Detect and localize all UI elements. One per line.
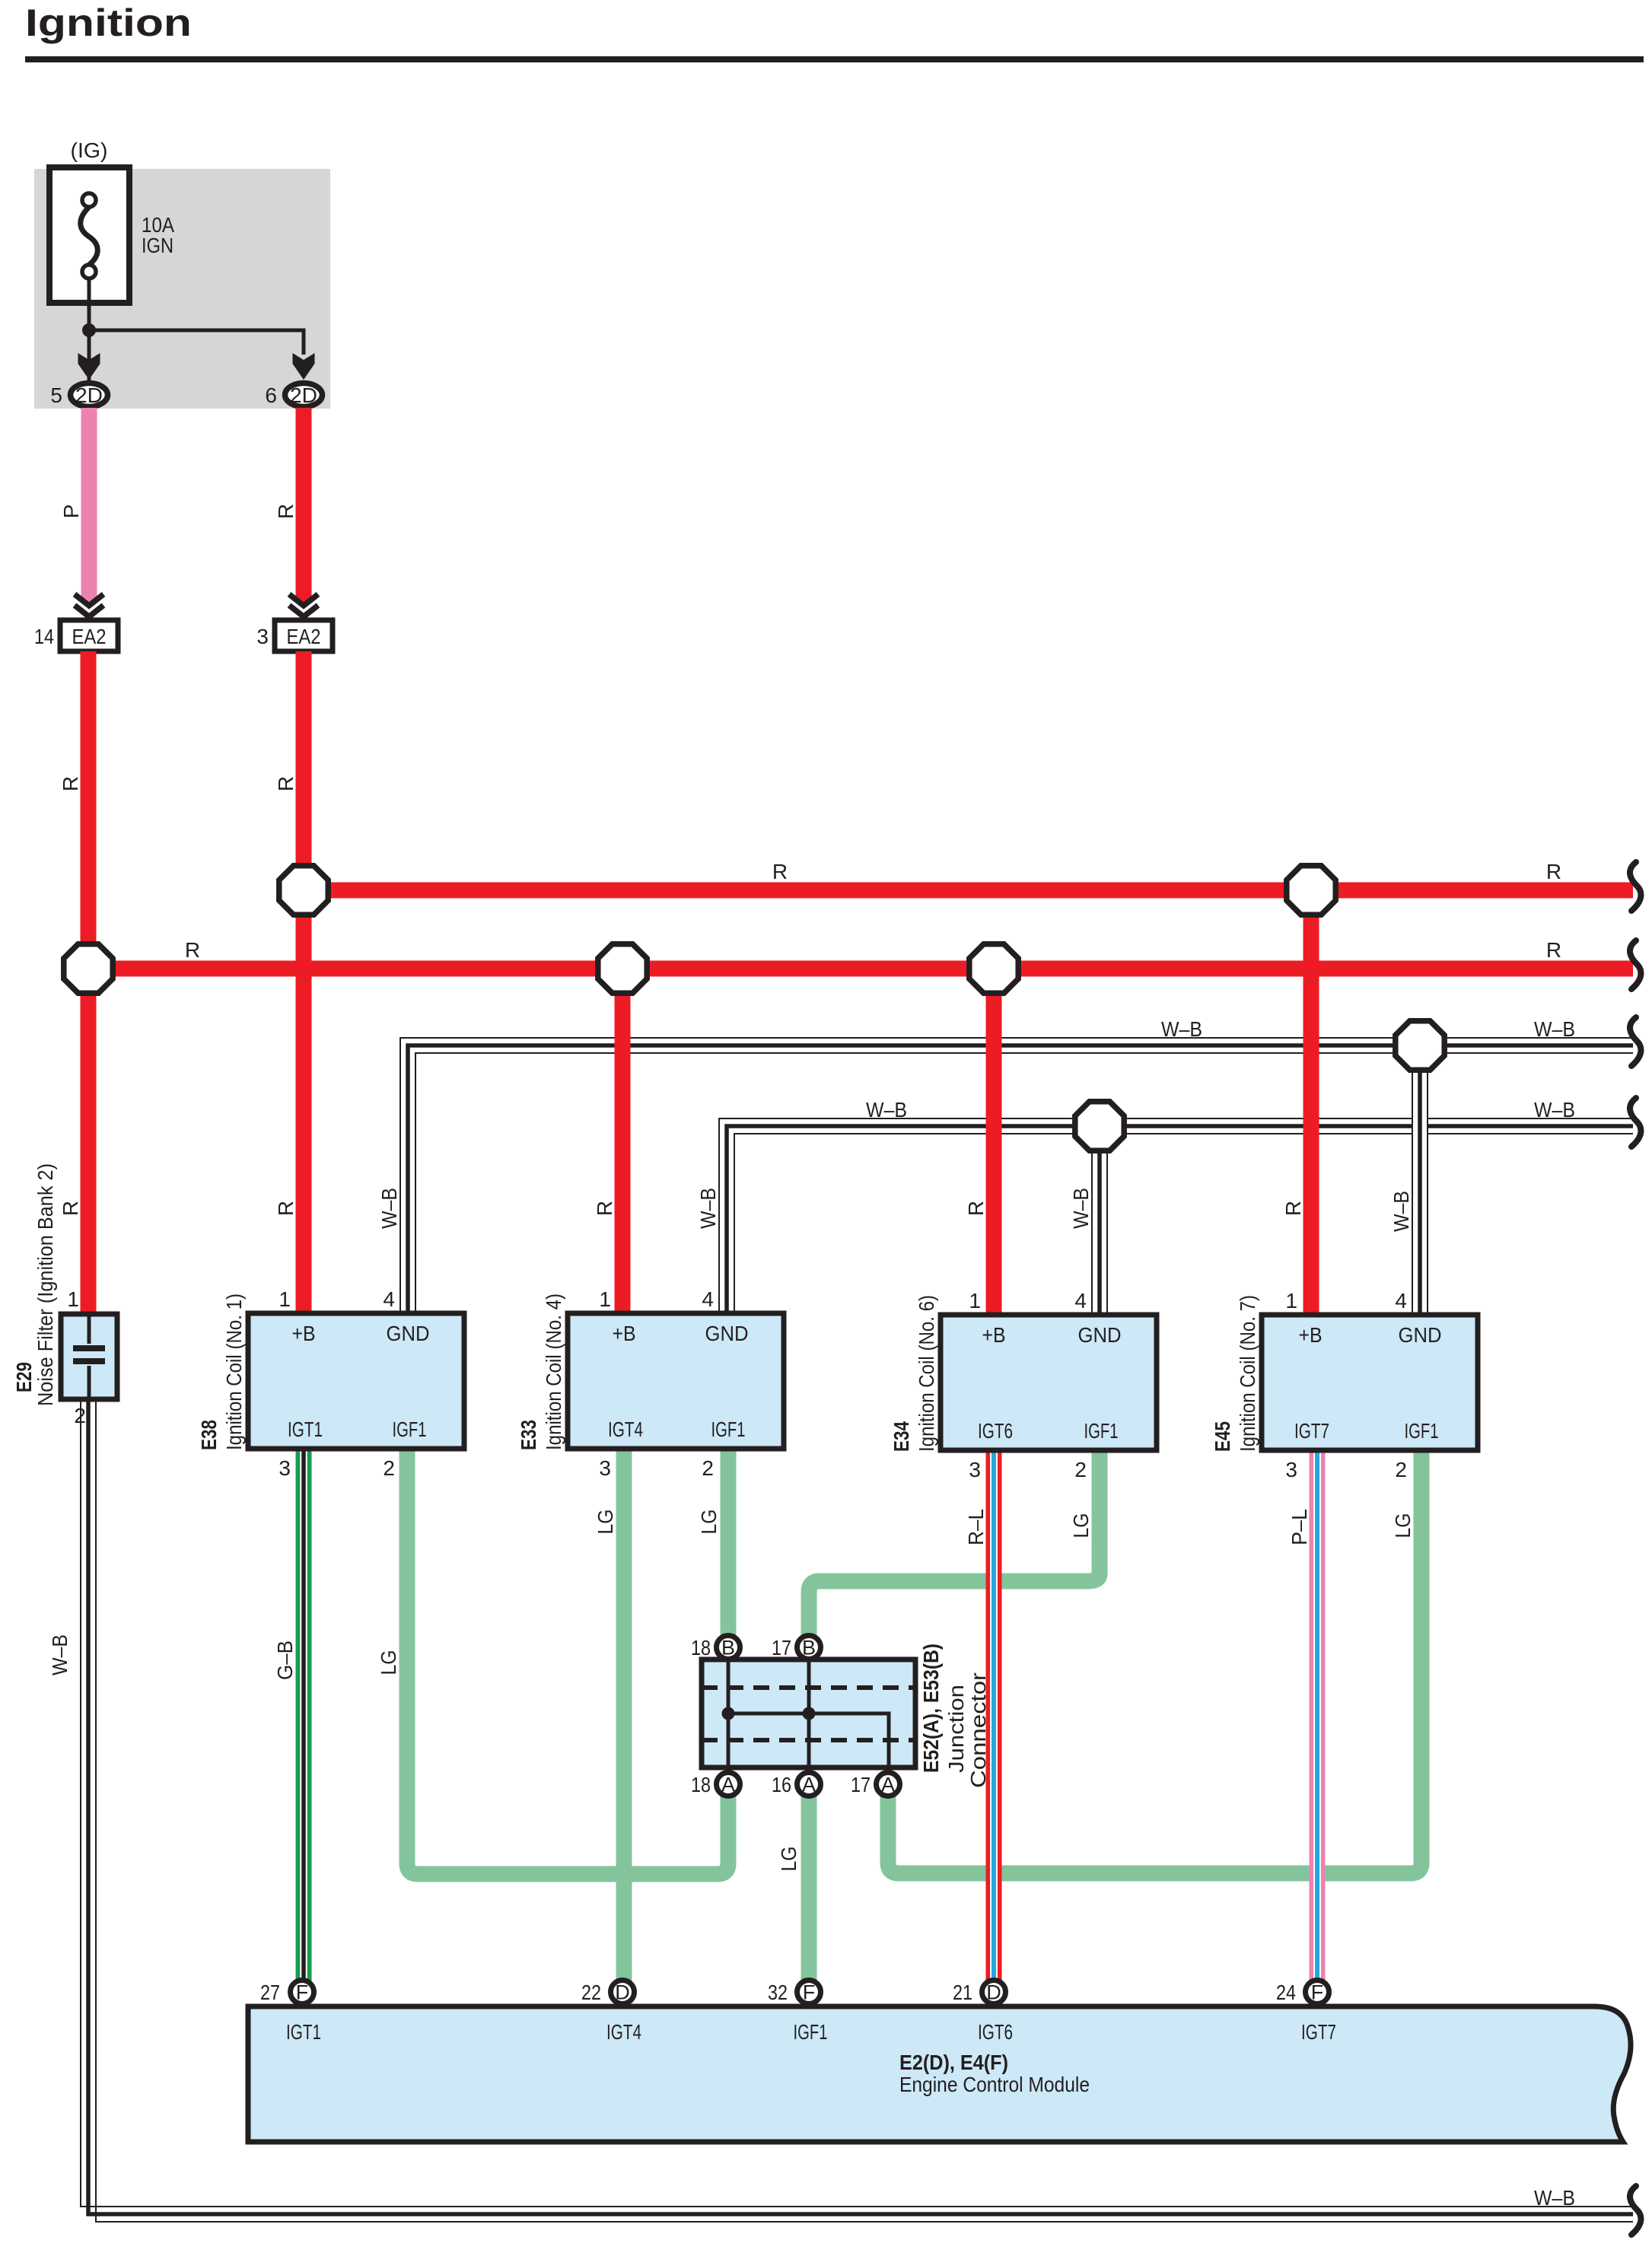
svg-text:W–B: W–B [696,1188,720,1229]
svg-text:21: 21 [953,1981,972,2004]
ECM pin 32 F IGF1 [768,1981,828,2044]
svg-text:3: 3 [279,1456,291,1480]
wire LG from E33 IGT4 to ECM 22D [594,1449,624,1983]
wire LG from E33 IGF1 to junction B18 [697,1449,728,1636]
svg-text:LG: LG [777,1847,801,1872]
arrow into connector 6 2D [293,353,315,380]
wire R to E45 +B [1281,890,1311,1315]
svg-text:W–B: W–B [1534,1098,1575,1122]
wire LG from junction A16 to ECM 32F [777,1796,809,1983]
continuation bracket W-B ground bus bottom [1630,2186,1641,2235]
svg-text:LG: LG [594,1510,617,1535]
svg-text:LG: LG [697,1510,721,1535]
svg-text:IGF1: IGF1 [1084,1419,1119,1443]
svg-text:R: R [59,776,82,791]
svg-text:E34: E34 [890,1421,913,1452]
junction pin 17 A [851,1773,900,1797]
junction pin 18 B [691,1636,740,1660]
ignition coil E45 (No. 7) [1211,1289,1478,1481]
svg-text:GND: GND [387,1322,430,1345]
svg-text:E52(A), E53(B): E52(A), E53(B) [919,1643,943,1773]
svg-text:EA2: EA2 [72,625,107,648]
svg-text:3: 3 [599,1456,611,1480]
ECM pin 27 F IGT1 [260,1981,321,2044]
svg-text:W–B: W–B [377,1188,401,1229]
wire P-L from E45 IGT7 to ECM 24F [1288,1448,1317,1983]
continuation bracket W-B bus A [1630,1017,1641,1066]
node J2 (octagon junction) [279,866,328,915]
svg-text:IGF1: IGF1 [1405,1419,1439,1443]
fuse 10A IGN [49,138,174,303]
svg-text:R–L: R–L [964,1509,988,1545]
svg-text:Junction: Junction [944,1685,968,1773]
wire LG from E34 IGF1 to junction B17 [809,1448,1100,1636]
svg-text:24: 24 [1276,1981,1296,2004]
svg-text:R: R [772,860,788,883]
svg-text:1: 1 [279,1287,291,1311]
ECM pin 24 F IGT7 [1276,1981,1336,2044]
svg-text:Ignition Coil (No. 7): Ignition Coil (No. 7) [1236,1295,1259,1452]
svg-text:G–B: G–B [273,1640,297,1680]
svg-text:(IG): (IG) [71,138,108,162]
svg-text:3: 3 [969,1458,981,1481]
svg-text:R: R [1281,1201,1305,1216]
svg-text:W–B: W–B [1069,1188,1093,1229]
svg-text:+B: +B [292,1322,316,1345]
svg-text:2: 2 [1395,1458,1407,1481]
wire W-B ground bus A (E38 GND) [377,1017,1633,1313]
svg-text:E38: E38 [197,1420,221,1450]
connector 14 EA2 [34,620,118,651]
svg-text:4: 4 [1395,1289,1407,1313]
svg-text:IGF1: IGF1 [711,1418,746,1441]
connector 3 EA2 [256,620,333,651]
svg-text:F: F [803,1981,816,2004]
wire R horizontal bus 1 [304,860,1633,890]
arrow into connector 5 2D [78,353,100,380]
svg-text:W–B: W–B [1389,1191,1413,1232]
junction connector E52(A), E53(B) [702,1643,990,1788]
wire LG from E38 IGF1 to junction A18 [377,1449,728,1874]
svg-text:17: 17 [851,1773,871,1796]
svg-text:P: P [59,504,83,519]
node J1 (octagon junction) [64,944,113,993]
svg-text:Engine Control Module: Engine Control Module [899,2073,1090,2096]
svg-text:GND: GND [1078,1323,1122,1347]
svg-text:P–L: P–L [1288,1509,1311,1545]
svg-text:4: 4 [383,1287,395,1311]
svg-text:A: A [721,1774,735,1796]
continuation bracket bus 1 [1630,862,1641,911]
wire R from 6 2D [274,408,304,603]
svg-text:27: 27 [260,1981,280,2004]
wire R to E33 +B [593,969,622,1313]
connector 5 2D [50,383,107,408]
svg-text:IGF1: IGF1 [393,1418,427,1441]
node J5 (octagon junction) [1287,866,1335,915]
svg-text:Noise Filter (Ignition Bank 2): Noise Filter (Ignition Bank 2) [33,1163,57,1406]
svg-text:F: F [1311,1981,1324,2004]
wire G-B from E38 IGT1 to ECM 27F [273,1449,304,1983]
inline connector chevrons into 3 EA2 [289,594,318,617]
inline connector chevrons into 14 EA2 [75,594,103,617]
junction pin 18 A [691,1773,740,1797]
svg-text:2: 2 [1074,1458,1087,1481]
svg-text:IGT4: IGT4 [608,1418,643,1441]
svg-text:W–B: W–B [1534,1017,1575,1041]
svg-text:IGF1: IGF1 [794,2020,828,2044]
svg-text:IGT1: IGT1 [286,2020,321,2044]
node J3 (octagon junction) [598,944,647,993]
svg-text:2: 2 [383,1456,395,1480]
wire R to E34 +B [964,969,994,1315]
svg-text:+B: +B [613,1322,636,1345]
svg-text:2D: 2D [290,383,317,407]
ECM pin 21 D IGT6 [953,1981,1013,2044]
svg-text:Ignition Coil (No. 1): Ignition Coil (No. 1) [222,1293,246,1450]
svg-text:1: 1 [1285,1289,1297,1313]
svg-text:GND: GND [1399,1323,1442,1347]
svg-text:IGT1: IGT1 [288,1418,323,1441]
power source block (grey) [34,169,330,409]
svg-text:R: R [59,1201,82,1216]
node J6 (octagon junction) [1075,1102,1124,1150]
ignition coil E33 (No. 4) [517,1287,784,1480]
svg-text:Ignition: Ignition [25,2,192,44]
svg-text:4: 4 [1074,1289,1087,1313]
svg-text:2: 2 [74,1404,86,1427]
svg-text:IGT6: IGT6 [978,1419,1013,1443]
wire W-B ground bus B (E33 GND) [696,1098,1633,1313]
svg-text:E2(D), E4(F): E2(D), E4(F) [899,2051,1008,2074]
svg-text:IGT7: IGT7 [1301,2020,1336,2044]
svg-text:22: 22 [581,1981,601,2004]
svg-text:17: 17 [772,1636,791,1659]
svg-text:1: 1 [67,1287,79,1311]
svg-text:A: A [802,1774,816,1796]
svg-text:IGN: IGN [142,234,173,257]
svg-text:4: 4 [702,1287,714,1311]
wire W-B E34 GND drop [1069,1126,1107,1315]
svg-text:W–B: W–B [866,1098,907,1122]
svg-text:3: 3 [256,625,269,648]
svg-text:R: R [185,938,200,962]
continuation bracket W-B bus B [1630,1098,1641,1147]
ignition coil E38 (No. 1) [197,1287,464,1480]
svg-text:W–B: W–B [1534,2186,1575,2210]
svg-text:W–B: W–B [1161,1017,1202,1041]
engine control module E2(D), E4(F) [248,2006,1631,2142]
wire P (pink) from 5 2D [59,408,89,603]
svg-text:W–B: W–B [48,1634,72,1675]
svg-text:2D: 2D [75,383,103,407]
svg-text:EA2: EA2 [287,625,321,648]
svg-text:IGT7: IGT7 [1294,1419,1329,1443]
svg-text:Ignition Coil (No. 4): Ignition Coil (No. 4) [542,1293,565,1450]
svg-text:R: R [964,1201,988,1216]
wire R-L from E34 IGT6 to ECM 21D [964,1448,994,1983]
noise filter E29 [12,1163,117,1427]
svg-text:2: 2 [702,1456,714,1480]
wire R horizontal bus 2 [88,938,1633,969]
svg-text:14: 14 [34,625,54,648]
svg-text:LG: LG [377,1650,400,1675]
continuation bracket bus 2 [1630,940,1641,989]
connector 6 2D [265,383,322,408]
svg-text:LG: LG [1391,1513,1415,1538]
svg-text:6: 6 [265,383,277,407]
title: Ignition [25,2,1644,62]
node J4 (octagon junction) [969,944,1018,993]
svg-text:R: R [274,504,298,519]
wire LG from junction A17 to E45 IGF1 [888,1448,1421,1873]
junction pin 16 A [772,1773,821,1797]
svg-text:A: A [881,1774,895,1796]
svg-text:IGT6: IGT6 [978,2020,1013,2044]
svg-text:18: 18 [691,1636,711,1659]
wire W-B from E29 pin 2 to ground bus [48,1399,1633,2222]
svg-text:R: R [1546,938,1561,962]
svg-text:R: R [274,776,298,791]
wire R from 3 EA2 to E38 +B [274,651,304,1313]
svg-text:3: 3 [1285,1458,1297,1481]
junction pin 17 B [772,1636,821,1660]
svg-text:E29: E29 [12,1362,36,1392]
svg-text:E45: E45 [1211,1421,1234,1452]
svg-text:+B: +B [982,1323,1006,1347]
svg-text:Connector: Connector [966,1672,990,1788]
svg-text:R: R [274,1201,298,1216]
ignition coil E34 (No. 6) [890,1289,1157,1481]
svg-text:R: R [1546,860,1561,883]
svg-text:1: 1 [599,1287,611,1311]
svg-text:Ignition Coil (No. 6): Ignition Coil (No. 6) [915,1295,938,1452]
svg-text:32: 32 [768,1981,788,2004]
svg-text:R: R [593,1201,616,1216]
svg-text:IGT4: IGT4 [606,2020,641,2044]
svg-text:1: 1 [969,1289,981,1313]
svg-text:F: F [296,1981,309,2004]
svg-text:16: 16 [772,1773,791,1796]
svg-text:D: D [615,1981,630,2004]
svg-text:GND: GND [705,1322,749,1345]
svg-text:D: D [986,1981,1001,2004]
ECM pin 22 D IGT4 [581,1981,641,2044]
svg-text:+B: +B [1299,1323,1323,1347]
svg-text:18: 18 [691,1773,711,1796]
svg-text:B: B [721,1637,735,1659]
wire W-B E45 GND drop [1389,1045,1428,1315]
svg-text:E33: E33 [517,1420,540,1450]
svg-text:B: B [802,1637,816,1659]
wire from fuse to connectors [82,278,304,383]
wire R from 14 EA2 to E29 [59,651,88,1314]
svg-text:LG: LG [1069,1513,1093,1538]
node J7 (octagon junction) [1396,1021,1444,1070]
svg-text:5: 5 [50,383,62,407]
